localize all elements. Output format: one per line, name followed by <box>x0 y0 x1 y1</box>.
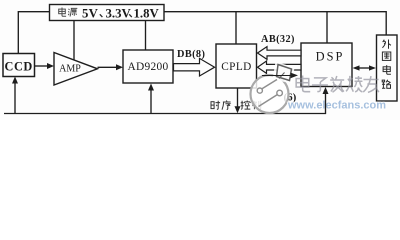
bus AB(32) block arrow <box>258 47 302 60</box>
wire power-drop-AD9200 <box>145 21 147 51</box>
wire rail-to-CCD <box>14 81 16 114</box>
arrowhead into AMP <box>47 63 54 69</box>
peripheral circuit box <box>377 35 398 101</box>
glyph 源 (power) <box>68 8 77 16</box>
glyph 序 (timing) <box>222 101 231 110</box>
wire AMP-to-AD9200 <box>98 66 118 68</box>
arrowhead up into DSP bottom <box>323 87 329 94</box>
svg-text:3.3V: 3.3V <box>106 6 132 20</box>
glyph 控 (control) <box>241 101 251 110</box>
wm glyph 子 <box>312 78 328 92</box>
wire bottom-rail <box>4 113 326 115</box>
watermark logo stroke line lower <box>259 95 278 107</box>
arrowhead up into CCD bottom <box>12 77 18 84</box>
watermark logo pen nib halo <box>273 62 295 84</box>
wire power-rail-right <box>164 12 386 35</box>
svg-text:AB(32): AB(32) <box>261 34 295 45</box>
svg-text:5V: 5V <box>82 6 99 20</box>
glyph 外 (peripheral) <box>382 40 391 49</box>
svg-text:CCD: CCD <box>4 59 32 73</box>
watermark logo big circle <box>251 75 289 113</box>
svg-text:AD9200: AD9200 <box>127 61 168 73</box>
control lines (6) arrow <box>262 75 292 77</box>
CPLD box <box>216 44 257 88</box>
wm glyph 友 <box>363 76 379 92</box>
AD9200 box <box>123 50 173 83</box>
watermark logo small circle left <box>257 88 262 93</box>
wire power-left <box>18 12 49 54</box>
glyph 电 (peripheral) <box>383 65 391 74</box>
svg-text:AMP: AMP <box>59 64 81 75</box>
arrowhead down timing <box>235 106 241 113</box>
power supply box <box>50 5 165 21</box>
glyph 电 (power) <box>59 8 66 17</box>
arrowhead DSP-to-peripheral right <box>369 65 376 70</box>
ideographic commas <box>100 14 132 17</box>
glyph 制 (control, behind watermark) <box>252 101 261 110</box>
op-amp AMP <box>54 53 98 86</box>
svg-text:www.elecfans.com: www.elecfans.com <box>287 100 386 112</box>
wire DSP-peripheral <box>356 67 372 69</box>
watermark logo pen nib <box>277 65 292 81</box>
wire rail-to-AD9200 <box>150 88 152 114</box>
wm glyph 发 <box>330 76 344 92</box>
wire CCD-to-AMP <box>35 65 49 67</box>
arrowhead peripheral-to-DSP left <box>353 65 360 70</box>
watermark text 电子发烧友 <box>296 76 379 93</box>
glyph 路 (peripheral) <box>382 80 391 89</box>
svg-text:DSP: DSP <box>316 50 345 64</box>
DSP box <box>301 43 352 87</box>
glyph 时 (timing) <box>211 101 220 110</box>
wm glyph 烧 <box>346 76 362 92</box>
svg-text:DB(8): DB(8) <box>177 49 205 60</box>
CCD box <box>3 54 35 77</box>
arrowhead up into AD9200 bottom <box>148 84 154 91</box>
svg-text:CPLD: CPLD <box>221 61 251 73</box>
glyph 围 (peripheral) <box>382 52 390 60</box>
wm glyph 电 <box>296 76 310 92</box>
watermark logo small circle right <box>277 90 283 96</box>
wire CPLD-timing-down <box>237 88 239 109</box>
wire rail-to-DSP <box>325 91 327 114</box>
bus DB data block arrow bidirectional <box>258 61 302 73</box>
watermark logo stroke line upper <box>262 80 277 89</box>
bus DB(8) block arrow <box>174 58 215 76</box>
wire power-drop-CPLD <box>235 12 237 44</box>
wire power-drop-DSP <box>326 12 328 43</box>
arrowhead into AD9200 <box>116 64 123 70</box>
svg-text:1.8V: 1.8V <box>134 6 160 20</box>
wire power-drop-AMP <box>73 21 75 61</box>
